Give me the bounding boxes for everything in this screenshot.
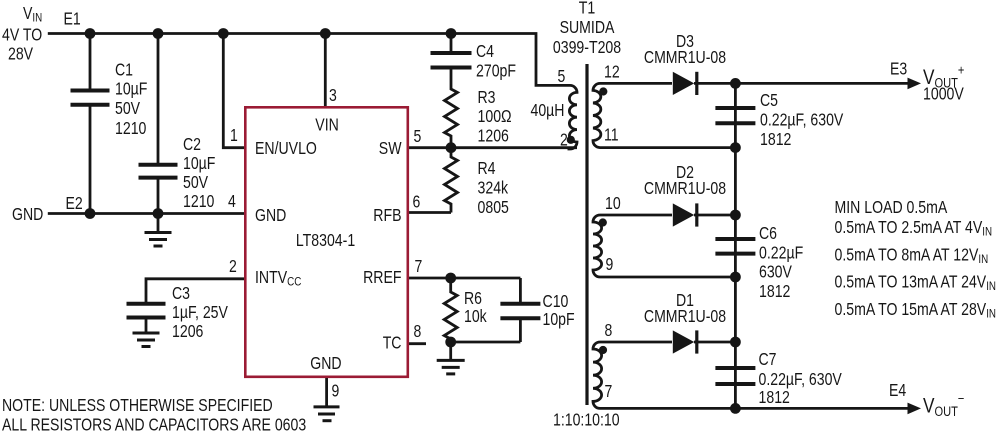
ground below C2 [157, 214, 160, 232]
node rail-C4 [446, 28, 457, 39]
svg-text:VIN: VIN [315, 115, 339, 135]
wire C10 lower [519, 318, 522, 342]
node C7 bottom [730, 403, 741, 414]
secondary 8-7 polarity dot [599, 346, 607, 354]
wire E3 output [735, 82, 908, 85]
diode D1 [673, 330, 694, 353]
resistor R4 [445, 148, 458, 213]
svg-text:10µF: 10µF [183, 153, 215, 173]
svg-text:1µF, 25V: 1µF, 25V [172, 302, 228, 322]
svg-text:CC: CC [287, 275, 301, 289]
ground below R6 [449, 342, 452, 359]
svg-text:10k: 10k [464, 306, 487, 326]
wire SW to transformer [407, 146, 577, 149]
node C6 top [730, 210, 741, 221]
svg-text:LT8304-1: LT8304-1 [296, 230, 355, 250]
wire INTVCC to C3 [146, 279, 246, 302]
svg-text:E3: E3 [890, 59, 907, 79]
wire RREF to C10 [407, 277, 520, 280]
svg-text:C10: C10 [543, 291, 569, 311]
svg-text:IN: IN [982, 225, 992, 239]
wire pin9s to bus [600, 276, 735, 279]
op-amp U1 LT8304-1 box [245, 107, 407, 377]
svg-text:MIN LOAD 0.5mA: MIN LOAD 0.5mA [835, 197, 948, 217]
svg-text:7: 7 [415, 256, 423, 276]
svg-text:ALL RESISTORS AND CAPACITORS A: ALL RESISTORS AND CAPACITORS ARE 0603 [2, 415, 306, 432]
primary polarity dot [567, 136, 575, 144]
wire top rail [48, 34, 570, 86]
wire output bus [734, 83, 737, 408]
svg-text:1000V: 1000V [923, 84, 964, 104]
svg-text:C6: C6 [759, 223, 777, 243]
svg-text:SUMIDA: SUMIDA [560, 17, 615, 37]
wire C2 branch lower [157, 179, 160, 214]
secondary 12-11 polarity dot [599, 87, 607, 95]
svg-text:0.5mA TO 2.5mA AT 4V: 0.5mA TO 2.5mA AT 4V [835, 217, 983, 237]
svg-text:CMMR1U-08: CMMR1U-08 [644, 47, 726, 67]
svg-text:100Ω: 100Ω [478, 106, 512, 126]
wire E4 output [735, 407, 908, 410]
svg-text:10: 10 [605, 193, 621, 213]
svg-text:5: 5 [414, 126, 422, 146]
svg-text:IN: IN [986, 306, 996, 320]
diode D3 [673, 72, 694, 95]
svg-text:CMMR1U-08: CMMR1U-08 [644, 306, 726, 326]
svg-text:EN/UVLO: EN/UVLO [255, 138, 317, 158]
svg-text:R4: R4 [478, 158, 496, 178]
svg-text:C1: C1 [115, 60, 133, 80]
wire D1 to bus [694, 341, 735, 344]
svg-text:+: + [958, 63, 965, 78]
svg-text:28V: 28V [8, 44, 34, 64]
svg-text:C2: C2 [183, 134, 201, 154]
wire C1 branch lower [89, 107, 92, 214]
svg-text:0399-T208: 0399-T208 [553, 37, 621, 57]
svg-text:2: 2 [560, 130, 568, 150]
wire pin8s to D1 [600, 341, 672, 344]
svg-text:10pF: 10pF [543, 309, 575, 329]
wire GND rail [48, 212, 246, 215]
wire D2 to bus [694, 214, 735, 217]
svg-text:2: 2 [229, 256, 237, 276]
svg-text:1206: 1206 [478, 126, 509, 146]
transformer T1 primary winding [568, 85, 578, 149]
capacitor C5 [715, 108, 755, 123]
svg-text:RFB: RFB [373, 205, 401, 225]
svg-text:V: V [23, 3, 33, 23]
svg-text:R3: R3 [478, 87, 496, 107]
svg-text:C5: C5 [760, 90, 778, 110]
node C5 top [730, 78, 741, 89]
svg-text:RREF: RREF [363, 267, 401, 287]
wire C1 branch upper [89, 34, 92, 89]
svg-text:GND: GND [255, 205, 286, 225]
svg-text:0.5mA TO 8mA AT 12V: 0.5mA TO 8mA AT 12V [835, 245, 979, 265]
svg-text:INTV: INTV [255, 267, 288, 287]
svg-text:5: 5 [558, 66, 566, 86]
svg-text:630V: 630V [759, 262, 792, 282]
secondary 10-9 polarity dot [599, 218, 607, 226]
svg-text:270pF: 270pF [476, 61, 516, 81]
capacitor C2 [139, 165, 178, 178]
svg-text:C3: C3 [172, 283, 190, 303]
node C6 bottom [730, 272, 741, 283]
capacitor C1 [71, 91, 110, 105]
ground pin9 [314, 407, 340, 421]
svg-text:IN: IN [32, 11, 42, 25]
wire pin1 branch [223, 34, 246, 148]
wire R6 bottom to C10 [451, 341, 521, 344]
svg-text:50V: 50V [115, 98, 141, 118]
wire pin3 stub [324, 34, 327, 109]
svg-text:−: − [958, 391, 965, 406]
transformer secondary winding 10-9 [593, 215, 602, 277]
svg-text:0805: 0805 [478, 197, 509, 217]
wire pin11 to bus [600, 146, 735, 149]
diode D2 [673, 203, 694, 226]
wire pin7s to bus [600, 407, 735, 410]
svg-text:4V TO: 4V TO [2, 25, 42, 45]
svg-text:8: 8 [414, 321, 422, 341]
transformer secondary winding 12-11 [593, 83, 601, 147]
svg-text:E2: E2 [66, 193, 83, 213]
svg-text:0.22µF, 630V: 0.22µF, 630V [759, 369, 843, 389]
svg-text:40µH: 40µH [531, 100, 565, 120]
arrow E4 [908, 403, 922, 415]
svg-text:9: 9 [332, 381, 340, 401]
transformer T1 core [585, 64, 588, 405]
svg-text:3: 3 [329, 85, 337, 105]
capacitor C4 [431, 53, 472, 68]
wire rail to C4 [450, 34, 453, 52]
svg-text:E4: E4 [889, 380, 907, 400]
svg-text:IN: IN [986, 279, 996, 293]
svg-text:1210: 1210 [183, 191, 214, 211]
svg-text:GND: GND [310, 353, 341, 373]
capacitor C3 [127, 304, 166, 318]
arrow E3 [908, 78, 922, 90]
svg-text:1: 1 [230, 125, 238, 145]
wire C10 upper [519, 278, 522, 302]
svg-text:V: V [923, 395, 935, 418]
svg-text:50V: 50V [183, 172, 209, 192]
svg-text:9: 9 [606, 254, 614, 274]
svg-text:0.5mA TO 15mA AT 28V: 0.5mA TO 15mA AT 28V [835, 299, 987, 319]
wire pin10 to D2 [600, 214, 672, 217]
wire D3 to bus [694, 82, 735, 85]
svg-text:1:10:10:10: 1:10:10:10 [553, 410, 620, 430]
node RREF-R6 [445, 273, 456, 284]
capacitor C6 [715, 239, 755, 254]
svg-text:4: 4 [228, 191, 236, 211]
svg-text:324k: 324k [478, 178, 509, 198]
node C7 top [730, 337, 741, 348]
svg-text:12: 12 [604, 62, 620, 82]
svg-text:C4: C4 [476, 41, 494, 61]
wire pin9 stub [325, 377, 328, 406]
wire C2 branch upper [157, 34, 160, 164]
wire pin12 to D3 [600, 82, 672, 85]
ground below C3 [145, 318, 148, 333]
svg-text:11: 11 [604, 125, 619, 145]
capacitor C7 [715, 368, 755, 384]
svg-text:CMMR1U-08: CMMR1U-08 [644, 178, 726, 198]
svg-text:IN: IN [978, 252, 988, 266]
svg-text:0.22µF: 0.22µF [759, 242, 803, 262]
svg-text:0.22µF, 630V: 0.22µF, 630V [760, 110, 844, 130]
svg-text:6: 6 [413, 192, 421, 212]
svg-text:GND: GND [12, 204, 43, 224]
svg-text:OUT: OUT [935, 404, 958, 419]
svg-text:0.5mA TO 13mA AT 24V: 0.5mA TO 13mA AT 24V [835, 271, 987, 291]
node C5 bottom [730, 142, 741, 153]
wire TC stub [407, 342, 426, 345]
svg-text:1812: 1812 [759, 281, 790, 301]
node R6 bottom [445, 337, 456, 348]
node rail-pin1 [218, 28, 229, 39]
node SW junction [446, 142, 457, 153]
svg-text:T1: T1 [579, 0, 596, 18]
node rail-C2 [153, 28, 164, 39]
svg-text:C7: C7 [759, 349, 777, 369]
transformer secondary winding 8-7 [593, 342, 602, 408]
node gnd-C2 [153, 208, 164, 219]
svg-text:NOTE: UNLESS OTHERWISE SPECIFI: NOTE: UNLESS OTHERWISE SPECIFIED [2, 395, 273, 415]
svg-text:SW: SW [379, 138, 402, 158]
svg-text:1210: 1210 [115, 118, 146, 138]
capacitor C10 [500, 304, 540, 319]
svg-text:E1: E1 [64, 9, 81, 29]
svg-text:R6: R6 [464, 288, 482, 308]
resistor R6 [444, 278, 457, 342]
svg-text:1206: 1206 [172, 321, 203, 341]
node E2 [85, 208, 96, 219]
svg-text:8: 8 [605, 320, 613, 340]
svg-text:1812: 1812 [759, 387, 790, 407]
svg-text:TC: TC [383, 333, 402, 353]
node rail-pin3 [320, 28, 331, 39]
wire R4 to RFB [407, 211, 451, 214]
svg-text:10µF: 10µF [115, 79, 147, 99]
svg-text:7: 7 [605, 381, 613, 401]
svg-text:1812: 1812 [760, 129, 791, 149]
node E1 [85, 28, 96, 39]
resistor R3 [445, 68, 458, 148]
